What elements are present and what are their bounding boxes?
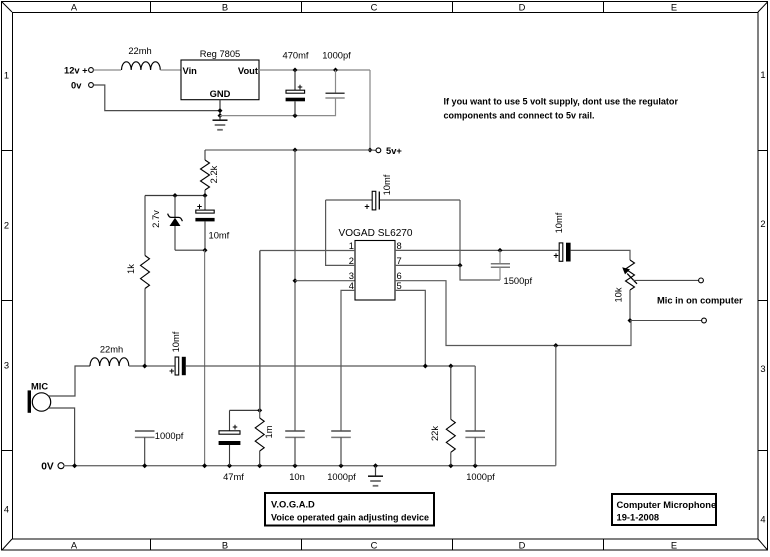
capacitor C6 10mf output [553,212,570,261]
wire pin2 [326,200,355,265]
capacitor C7 10mf mic [169,331,186,376]
junction rail pin4 1000pf [339,463,344,468]
potentiometer R3 10k [614,260,638,303]
terminal 12v+ [64,66,93,76]
pin number 2 [349,256,354,266]
svg-text:10mf: 10mf [554,212,564,233]
svg-text:+: + [197,202,202,212]
svg-text:Reg 7805: Reg 7805 [200,49,241,59]
wire signal down to 1000pf [474,366,476,431]
svg-text:10mf: 10mf [382,174,392,195]
wire pot bottom to terminal [630,320,702,322]
resistor R4 1m [255,251,274,466]
note text [444,96,679,120]
border column labels top [71,3,677,13]
junction signal-22k [448,364,453,369]
svg-text:A: A [71,541,78,551]
svg-text:Mic in on computer: Mic in on computer [657,296,743,306]
svg-text:GND: GND [210,89,231,99]
capacitor C8 1000pf [135,431,184,466]
wire pin4 [341,290,355,431]
svg-text:1500pf: 1500pf [504,276,533,286]
svg-text:8: 8 [397,241,402,251]
pin number 4 [349,281,354,291]
wire zener chain down to 0V rail [204,250,206,466]
wire mic lower to 0V [49,408,75,466]
svg-text:1000pf: 1000pf [155,431,184,441]
junction 5v rail to pin3 line [293,148,298,153]
svg-text:2: 2 [760,219,765,229]
svg-text:1: 1 [349,241,354,251]
inductor L1 22mh [122,46,161,70]
resistor R2 1k [126,196,150,367]
junction rail mic [72,463,77,468]
border right row ticks [758,151,768,451]
svg-text:components and connect to 5v r: components and connect to 5v rail. [444,110,595,120]
svg-text:Vin: Vin [183,66,198,76]
junction 5v node [368,148,373,153]
svg-text:5v+: 5v+ [386,146,402,156]
wire mic upper to inductor [49,366,90,396]
svg-text:B: B [222,541,228,551]
wire pin5 [395,290,425,366]
capacitor C4 10mf [364,174,392,211]
svg-text:4: 4 [760,515,765,525]
wire pin6 to ground net [395,281,631,346]
junction rail 1000pf [142,463,147,468]
svg-text:1: 1 [760,70,765,80]
junction Vout-1000pf [333,68,338,73]
capacitor C2 1000pf [322,51,351,99]
wire ground net down to 0V rail [555,346,557,466]
wire pin7 to 1500pf bottom [460,265,500,280]
svg-text:4: 4 [349,281,354,291]
svg-text:D: D [519,3,526,13]
svg-text:1k: 1k [126,264,136,274]
junction 1m top [257,408,262,413]
junction rail 10n [293,463,298,468]
svg-text:B: B [222,3,228,13]
svg-text:2.2k: 2.2k [209,165,219,183]
capacitor C1 470mf [283,51,309,116]
svg-text:22mh: 22mh [128,46,151,56]
svg-text:Vout: Vout [238,66,258,76]
terminal 0V [41,462,64,473]
svg-text:4: 4 [4,505,9,515]
svg-text:47mf: 47mf [223,472,244,482]
wire GND pin stub [219,100,221,116]
svg-text:1000pf: 1000pf [322,51,351,61]
svg-text:19-1-2008: 19-1-2008 [617,513,660,523]
svg-text:2: 2 [349,256,354,266]
svg-text:2.7v: 2.7v [151,210,161,228]
title box VOGAD [265,493,434,526]
wire signal line [186,365,475,367]
resistor R5 22k [430,366,455,466]
junction rail 1000pf out [473,463,478,468]
wire pin3 [295,280,355,282]
wire pot bottom [629,290,631,321]
svg-text:0v: 0v [71,81,82,91]
svg-text:C: C [371,541,378,551]
capacitor C12 1000pf output [465,431,495,482]
pin number 7 [397,256,402,266]
junction cap 10mf top [203,193,208,198]
svg-text:E: E [671,541,677,551]
microphone MIC [28,382,51,413]
junction Vout-470mf [293,68,298,73]
svg-text:V.O.G.A.D: V.O.G.A.D [271,500,315,510]
terminal 5v+ [370,146,402,156]
op-amp U2 VOGAD SL6270 [338,228,412,300]
svg-text:10mf: 10mf [171,331,181,352]
wire inductor to cap [129,365,175,367]
pin number 8 [397,241,402,251]
pin number 3 [349,271,354,281]
regulator U1 Reg 7805 [181,49,259,100]
title box Computer Microphone [612,494,716,525]
wire ground rail to caps [220,98,336,115]
wire zener bottom to cap bottom [175,249,205,251]
junction GND node upper [218,108,223,113]
svg-text:10k: 10k [614,287,624,302]
wire pin1 [260,251,355,411]
svg-text:2: 2 [4,221,9,231]
wire 0v to GND node [93,85,218,111]
wire 12v to inductor [93,69,121,71]
wire cap to pot [571,250,630,260]
junction mic node [142,364,147,369]
wire Vout rail [259,69,370,71]
pin number 6 [397,271,402,281]
svg-text:+: + [232,422,237,432]
svg-text:10mf: 10mf [209,231,230,241]
ground symbol G2 [368,466,383,486]
svg-text:22k: 22k [430,426,440,441]
svg-text:22mh: 22mh [100,345,123,355]
svg-text:+: + [553,251,558,261]
wire 5v line down to 10n cap [294,150,296,431]
svg-text:Computer Microphone: Computer Microphone [617,500,717,510]
junction zener top [173,193,178,198]
border row labels left [4,71,9,515]
svg-text:3: 3 [4,361,9,371]
junction 470mf bottom [293,113,298,118]
inductor L2 22mh [90,345,129,367]
node label Mic in on computer [657,296,743,306]
junction rail zener chain [202,463,207,468]
capacitor C11 1000pf pin4 [327,431,356,482]
junction ground net [553,343,558,348]
capacitor C3 10mf [195,196,229,251]
junction GND node lower [218,113,223,118]
svg-text:Voice operated gain adjusting: Voice operated gain adjusting device [271,513,429,523]
svg-text:VOGAD SL6270: VOGAD SL6270 [338,228,412,239]
svg-text:3: 3 [349,271,354,281]
junction rail ground [373,463,378,468]
wire 5v rail [205,149,370,151]
svg-text:+: + [364,202,369,212]
wire pin7 [395,264,460,266]
junction signal-pin5 [423,364,428,369]
svg-text:470mf: 470mf [283,51,309,61]
svg-text:D: D [519,541,526,551]
wire 47mf top link [230,409,260,411]
terminal mic tip [699,278,704,283]
svg-text:5: 5 [397,281,402,291]
ground symbol G1 [213,116,228,130]
capacitor C9 47mf [219,410,245,481]
terminal mic sleeve [702,318,707,323]
svg-text:0V: 0V [41,462,54,473]
capacitor C5 1500pf [491,250,533,286]
svg-text:7: 7 [397,256,402,266]
junction pin3 node [293,278,298,283]
pin number 1 [349,241,354,251]
junction pin7 node [458,263,463,268]
svg-text:If you want to use 5 volt supp: If you want to use 5 volt supply, dont u… [444,96,679,106]
wire pot wiper to terminal [633,279,699,281]
svg-text:1000pf: 1000pf [466,472,495,482]
svg-text:1m: 1m [264,425,274,438]
border bottom column dividers [151,539,604,550]
junction zener chain bottom [203,248,208,253]
svg-text:12v +: 12v + [64,66,88,76]
junction pin8-1500pf [498,248,503,253]
svg-text:+: + [297,82,302,92]
wire inductor to Vin [160,69,181,71]
svg-text:MIC: MIC [31,382,48,392]
wire 0V rail [64,465,556,467]
svg-text:C: C [371,3,378,13]
svg-text:A: A [71,3,78,13]
wire zener node [145,195,205,197]
svg-text:10n: 10n [289,472,305,482]
border top column dividers [151,2,604,12]
wire pin8 [395,249,559,251]
junction pot bottom [628,318,633,323]
border left row ticks [2,151,12,451]
terminal 0v [71,81,93,91]
pin number 5 [397,281,402,291]
border row labels right [760,70,765,525]
junction rail 1m [257,463,262,468]
resistor R1 2.2k [201,150,220,196]
capacitor C10 10n [285,431,305,482]
svg-text:1: 1 [4,71,9,81]
svg-text:+: + [169,366,174,376]
svg-text:3: 3 [760,364,765,374]
border column labels bottom [71,541,677,551]
svg-text:6: 6 [397,271,402,281]
wire cap loop top [326,200,460,265]
junction rail 47mf [227,463,232,468]
wire Vout down to 5v rail [369,70,371,150]
svg-text:1000pf: 1000pf [327,472,356,482]
junction rail 22k [448,463,453,468]
zener D1 2.7v [151,196,182,251]
svg-text:E: E [671,3,677,13]
